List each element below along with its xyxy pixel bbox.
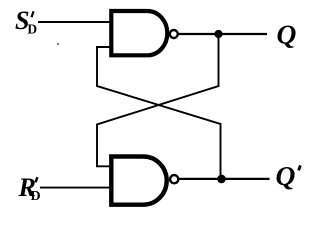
nand gate U2 output bubble — [170, 175, 178, 183]
wire R input — [40, 187, 110, 189]
nand gate U1 output bubble — [170, 30, 178, 38]
svg-text:D: D — [27, 21, 37, 36]
wire S input — [38, 21, 110, 23]
label R'D — [18, 173, 41, 204]
wire feedback from top-gate lower input down-right to Q' node — [97, 47, 221, 179]
wire Q output — [178, 33, 267, 35]
label Q' — [276, 160, 301, 191]
wire feedback from Q node down-left to bottom-gate upper input — [97, 34, 219, 166]
svg-text:Q: Q — [276, 160, 296, 191]
scan speck — [57, 43, 59, 45]
node Q junction dot — [214, 30, 222, 38]
nand gate U1 (top) body — [111, 11, 167, 55]
node Q' junction dot — [217, 175, 226, 184]
wire Q' output — [179, 178, 270, 180]
svg-text:D: D — [31, 189, 41, 204]
nand gate U2 (bottom) body — [111, 156, 166, 204]
svg-text:Q: Q — [277, 18, 297, 49]
label S'D — [15, 6, 37, 37]
